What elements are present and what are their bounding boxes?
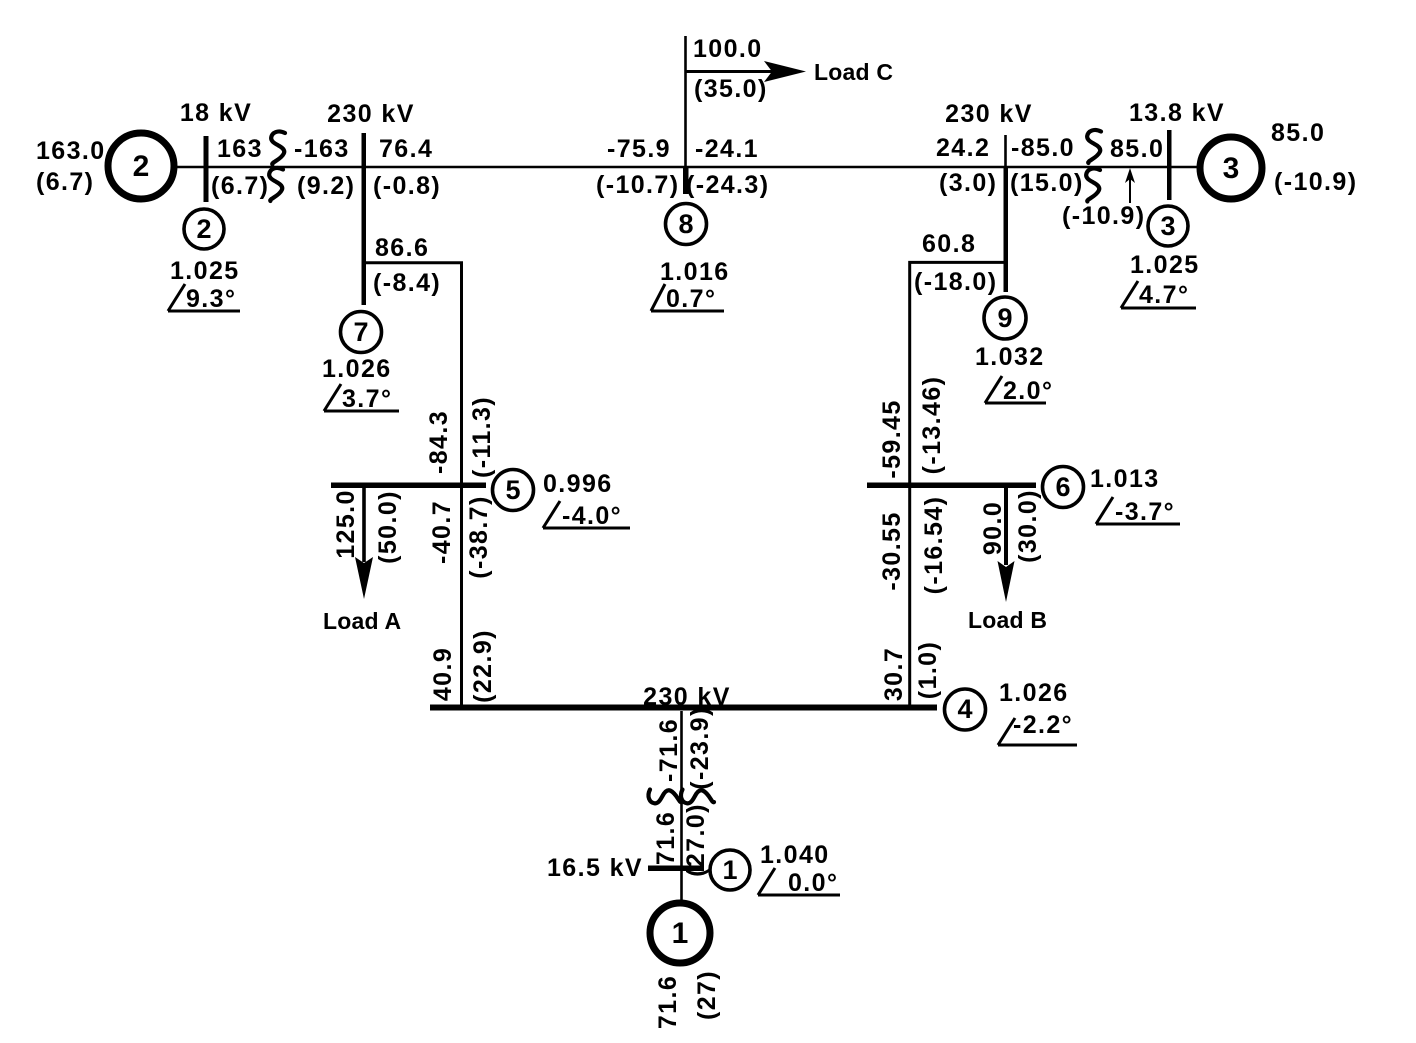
- svg-text:60.8: 60.8: [922, 230, 976, 258]
- svg-text:(1.0): (1.0): [914, 641, 942, 699]
- svg-text:-30.55: -30.55: [878, 511, 906, 590]
- svg-text:(-10.7): (-10.7): [596, 171, 679, 199]
- bus 6 bar: [867, 483, 1036, 489]
- svg-text:1.032: 1.032: [975, 343, 1045, 371]
- wire: bus4 to gen1: [680, 711, 683, 900]
- svg-text:7: 7: [353, 317, 368, 347]
- svg-text:163: 163: [217, 135, 263, 163]
- svg-text:2: 2: [196, 214, 211, 244]
- svg-text:4.7°: 4.7°: [1139, 281, 1189, 309]
- node bus2 number circle: [184, 209, 224, 249]
- svg-text:1.025: 1.025: [1130, 251, 1200, 279]
- svg-text:0.996: 0.996: [543, 470, 613, 498]
- svg-text:9: 9: [997, 303, 1012, 333]
- svg-text:71.6: 71.6: [654, 975, 682, 1029]
- bus 8 takeoff wire: [684, 36, 687, 167]
- svg-text:13.8 kV: 13.8 kV: [1129, 99, 1225, 127]
- svg-text:-163: -163: [294, 135, 350, 163]
- svg-text:2.0°: 2.0°: [1003, 377, 1053, 405]
- svg-text:76.4: 76.4: [379, 135, 433, 163]
- svg-text:0.7°: 0.7°: [666, 285, 716, 313]
- load C arrow: [686, 70, 773, 73]
- wire: line 7-5 (L-shape): [364, 263, 462, 708]
- svg-text:86.6: 86.6: [375, 234, 429, 262]
- svg-text:(15.0): (15.0): [1010, 169, 1084, 197]
- svg-text:16.5 kV: 16.5 kV: [547, 854, 643, 882]
- svg-text:1.013: 1.013: [1090, 465, 1160, 493]
- svg-text:30.7: 30.7: [880, 647, 908, 701]
- bus 5 bar: [331, 483, 486, 489]
- svg-text:(-11.3): (-11.3): [468, 396, 496, 478]
- svg-text:(-18.0): (-18.0): [914, 268, 997, 296]
- svg-text:(6.7): (6.7): [211, 172, 269, 200]
- wire: main 230 kV tie line bus2..bus3: [176, 166, 1199, 169]
- svg-text:1.026: 1.026: [999, 679, 1069, 707]
- svg-text:-59.45: -59.45: [878, 399, 906, 478]
- svg-text:Load A: Load A: [323, 608, 401, 634]
- svg-text:(-16.54): (-16.54): [920, 496, 948, 595]
- svg-text:-4.0°: -4.0°: [562, 502, 622, 530]
- svg-text:(22.9): (22.9): [469, 629, 497, 703]
- generator G1: [650, 903, 710, 963]
- svg-text:18 kV: 18 kV: [180, 99, 252, 127]
- svg-text:(50.0): (50.0): [374, 490, 402, 564]
- generator G2: [108, 133, 174, 199]
- svg-text:-2.2°: -2.2°: [1013, 711, 1073, 739]
- svg-text:(27): (27): [693, 970, 721, 1020]
- node bus6 number circle: [1043, 467, 1084, 508]
- bus 9 stub above line: [1004, 135, 1007, 167]
- svg-text:3: 3: [1223, 152, 1240, 185]
- svg-text:1.040: 1.040: [760, 841, 830, 869]
- node bus1 number circle: [710, 850, 750, 890]
- svg-text:1.016: 1.016: [660, 258, 730, 286]
- bus 9 bar: [1004, 167, 1009, 292]
- bus 8 bar (tick below line): [683, 167, 689, 194]
- svg-text:5: 5: [505, 475, 520, 505]
- svg-text:0.0°: 0.0°: [788, 869, 838, 897]
- svg-text:1: 1: [722, 855, 737, 885]
- svg-text:-24.1: -24.1: [695, 135, 759, 163]
- bus 7 (230 kV) bar: [362, 133, 367, 305]
- svg-text:(-13.46): (-13.46): [918, 376, 946, 475]
- svg-text:-71.6: -71.6: [655, 718, 683, 782]
- wire: line 9-6 (L-shape): [910, 262, 1006, 708]
- svg-text:Load B: Load B: [968, 607, 1047, 633]
- svg-text:(-0.8): (-0.8): [373, 172, 441, 200]
- svg-text:(-24.3): (-24.3): [686, 171, 769, 199]
- node bus7 number circle: [341, 312, 382, 353]
- pointer arrow up to line: [1129, 174, 1131, 203]
- node bus3 number circle: [1148, 206, 1188, 246]
- svg-text:24.2: 24.2: [936, 134, 990, 162]
- svg-text:85.0: 85.0: [1110, 135, 1164, 163]
- svg-text:9.3°: 9.3°: [186, 285, 236, 313]
- svg-text:(-8.4): (-8.4): [373, 269, 441, 297]
- svg-text:3.7°: 3.7°: [342, 385, 392, 413]
- node bus4 number circle: [945, 689, 986, 730]
- svg-text:-84.3: -84.3: [425, 410, 453, 474]
- svg-text:(-10.9): (-10.9): [1062, 202, 1145, 230]
- svg-text:(-38.7): (-38.7): [465, 495, 493, 578]
- svg-text:4: 4: [957, 694, 972, 724]
- svg-text:(3.0): (3.0): [939, 169, 997, 197]
- svg-text:(-23.9): (-23.9): [686, 706, 714, 789]
- bus 4 bar: [430, 705, 937, 711]
- svg-text:(30.0): (30.0): [1014, 489, 1042, 563]
- svg-text:3: 3: [1160, 211, 1175, 241]
- load B arrow: [1004, 488, 1008, 565]
- svg-text:(9.2): (9.2): [297, 172, 355, 200]
- transformer T3 (between bus 9 and bus 3): [1087, 130, 1101, 163]
- svg-text:-40.7: -40.7: [428, 500, 456, 564]
- bus 2 (18 kV) bar: [204, 136, 209, 202]
- node bus5 number circle: [493, 470, 534, 511]
- svg-text:100.0: 100.0: [693, 35, 763, 63]
- svg-text:Load C: Load C: [814, 59, 893, 85]
- svg-text:8: 8: [678, 209, 693, 239]
- svg-text:(6.7): (6.7): [36, 168, 94, 196]
- svg-text:163.0: 163.0: [36, 137, 106, 165]
- svg-text:230 kV: 230 kV: [327, 100, 415, 128]
- transformer T1 (between bus 4 and bus 1): [648, 790, 681, 804]
- svg-text:1: 1: [672, 917, 689, 950]
- bus 1 (16.5 kV) bar: [648, 866, 704, 872]
- svg-text:90.0: 90.0: [979, 501, 1007, 555]
- svg-text:6: 6: [1055, 472, 1070, 502]
- svg-text:1.025: 1.025: [170, 257, 240, 285]
- svg-text:1.026: 1.026: [322, 355, 392, 383]
- svg-text:85.0: 85.0: [1271, 119, 1325, 147]
- node bus8 number circle: [666, 204, 707, 245]
- bus 3 (13.8 kV) bar: [1167, 130, 1172, 200]
- svg-text:(35.0): (35.0): [694, 75, 768, 103]
- svg-text:125.0: 125.0: [332, 489, 360, 559]
- svg-text:2: 2: [133, 150, 150, 183]
- transformer T2 (between bus 2 and bus 7): [271, 131, 285, 164]
- generator G3: [1200, 137, 1262, 199]
- load A arrow: [362, 487, 366, 562]
- node bus9 number circle: [984, 297, 1026, 339]
- svg-text:-3.7°: -3.7°: [1115, 498, 1175, 526]
- svg-text:71.6: 71.6: [652, 811, 680, 865]
- svg-text:40.9: 40.9: [429, 647, 457, 701]
- svg-text:(-10.9): (-10.9): [1274, 168, 1357, 196]
- svg-text:230 kV: 230 kV: [945, 100, 1033, 128]
- svg-text:-75.9: -75.9: [607, 135, 671, 163]
- svg-text:-85.0: -85.0: [1011, 134, 1075, 162]
